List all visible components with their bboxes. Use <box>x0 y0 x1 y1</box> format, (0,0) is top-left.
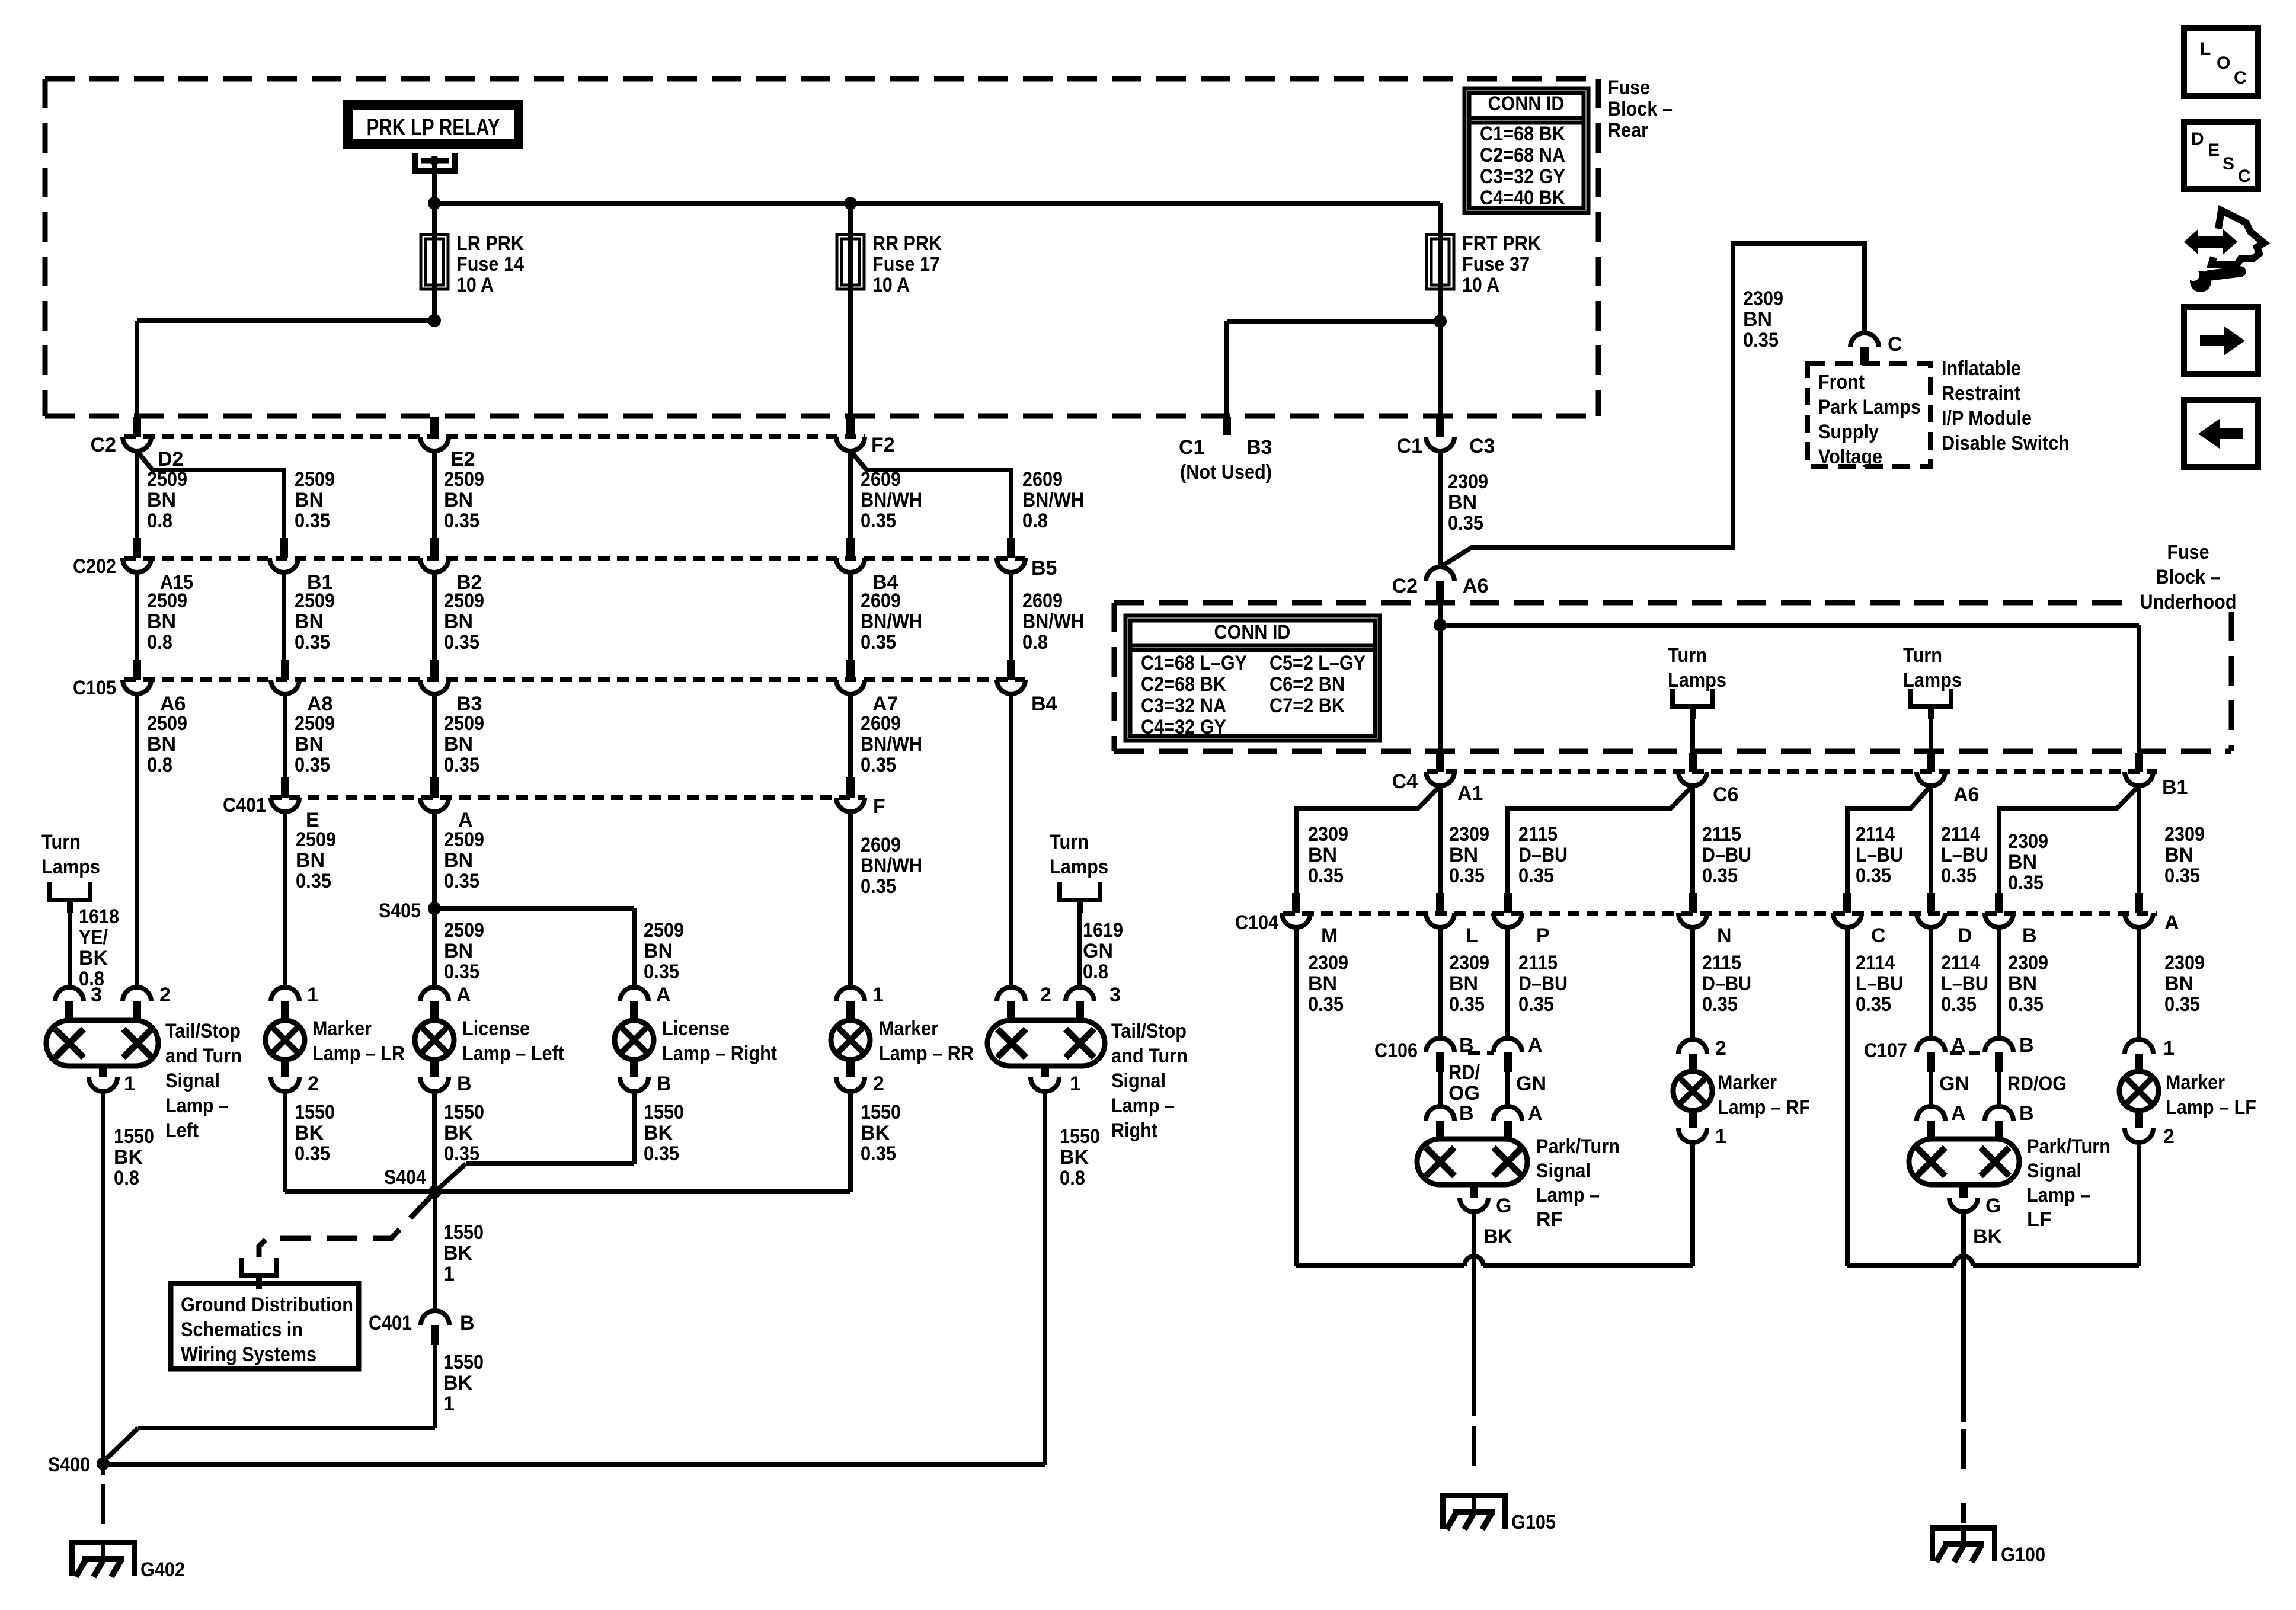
svg-text:C104: C104 <box>1235 911 1278 934</box>
svg-text:L–BU: L–BU <box>1941 972 1988 995</box>
connector C <box>1833 893 1886 947</box>
wire C down <box>1847 927 1903 1266</box>
svg-text:0.8: 0.8 <box>147 754 172 776</box>
tail/stop lamp right pin 2 <box>997 984 1051 1021</box>
row4 connector line C401 <box>270 795 865 800</box>
svg-text:2309: 2309 <box>2164 952 2205 974</box>
svg-text:0.35: 0.35 <box>644 961 679 983</box>
wire S405 to license right <box>434 908 684 987</box>
svg-text:0.35: 0.35 <box>1448 512 1483 534</box>
pin B3 not used <box>1179 417 1272 484</box>
svg-text:B1: B1 <box>2162 776 2188 799</box>
connector A underhood <box>2125 893 2179 934</box>
svg-text:C105: C105 <box>73 677 116 699</box>
svg-text:L–BU: L–BU <box>1941 844 1988 866</box>
svg-text:1550: 1550 <box>644 1101 684 1124</box>
svg-text:1: 1 <box>1070 1073 1081 1095</box>
svg-text:0.35: 0.35 <box>1856 865 1891 887</box>
svg-text:GN: GN <box>1083 940 1113 962</box>
svg-text:(Not Used): (Not Used) <box>1180 461 1272 484</box>
wire A6 below to junction <box>1438 604 1443 625</box>
wire RD/OG to lamp RF <box>1440 1061 1480 1107</box>
svg-text:C1: C1 <box>1397 435 1422 457</box>
svg-text:0.35: 0.35 <box>295 631 330 654</box>
wire RD/OG to lamp LF <box>1999 1072 2067 1107</box>
svg-text:0.35: 0.35 <box>861 754 896 776</box>
svg-text:BN: BN <box>295 489 324 511</box>
svg-text:2309: 2309 <box>1308 952 1348 974</box>
wire C401 B to S400 <box>103 1345 484 1462</box>
fuse block rear dashed enclosure <box>45 79 1598 416</box>
connector C202 pin A15 <box>73 538 193 594</box>
svg-text:Signal: Signal <box>2027 1160 2081 1182</box>
connector C106 pin A <box>1468 1034 1543 1072</box>
wire RR fuse down to F2 <box>848 289 853 417</box>
svg-text:C107: C107 <box>1864 1039 1907 1062</box>
svg-text:0.35: 0.35 <box>444 754 479 776</box>
wire marker LF down <box>2137 1142 2141 1266</box>
svg-text:Ground Distribution: Ground Distribution <box>181 1294 353 1316</box>
svg-text:Lamp – Right: Lamp – Right <box>662 1042 777 1065</box>
svg-text:B: B <box>1459 1102 1474 1125</box>
svg-text:BN: BN <box>147 610 176 633</box>
turn lamps bracket left <box>41 831 100 987</box>
svg-text:2509: 2509 <box>444 712 484 735</box>
svg-text:S404: S404 <box>384 1166 426 1189</box>
svg-text:0.35: 0.35 <box>296 870 331 892</box>
DESC icon box <box>2184 122 2258 189</box>
svg-text:BK: BK <box>79 947 108 969</box>
svg-text:G100: G100 <box>2001 1544 2045 1566</box>
park/turn lamp RF pin B <box>1426 1102 1474 1139</box>
svg-text:Supply: Supply <box>1818 421 1879 443</box>
svg-text:Rear: Rear <box>1608 119 1648 142</box>
svg-text:Fuse 17: Fuse 17 <box>872 253 940 276</box>
splice S404 <box>384 1166 442 1198</box>
marker lamp RF pin 2 <box>1678 1037 1726 1071</box>
svg-text:BK: BK <box>644 1122 673 1144</box>
wire D2 branch to B1 <box>137 451 335 538</box>
fuse LR PRK Fuse 14 <box>421 203 524 296</box>
svg-text:0.8: 0.8 <box>147 631 172 654</box>
svg-text:BN: BN <box>2164 972 2193 995</box>
connector C1/C3 <box>1397 417 1495 457</box>
wire license left to S404 <box>434 1092 484 1192</box>
svg-text:Lamp – LR: Lamp – LR <box>312 1042 405 1065</box>
svg-text:0.35: 0.35 <box>1449 993 1485 1016</box>
svg-text:2609: 2609 <box>1022 590 1063 612</box>
svg-text:Lamp –: Lamp – <box>1536 1184 1600 1206</box>
svg-text:0.35: 0.35 <box>295 754 330 776</box>
license lamp right pin B <box>620 1060 671 1095</box>
svg-text:2509: 2509 <box>295 590 335 612</box>
wire B4 to A7 <box>850 572 922 660</box>
wire A8 to E <box>285 694 335 777</box>
LOC icon box <box>2184 28 2258 96</box>
svg-text:3: 3 <box>1109 984 1121 1006</box>
svg-text:2309: 2309 <box>2008 952 2048 974</box>
svg-text:BK: BK <box>1483 1225 1513 1248</box>
svg-text:D–BU: D–BU <box>1702 844 1751 866</box>
wire A6 to front park lamps supply <box>1440 244 1865 567</box>
svg-text:C4=32 GY: C4=32 GY <box>1141 716 1226 738</box>
svg-text:BN: BN <box>147 489 176 511</box>
svg-text:1550: 1550 <box>1060 1125 1100 1148</box>
svg-text:2509: 2509 <box>444 828 484 851</box>
wire bus from relay to fuses <box>434 203 1440 235</box>
svg-text:D–BU: D–BU <box>1702 972 1751 995</box>
svg-text:1: 1 <box>443 1263 455 1285</box>
wire B1 to A8 <box>284 572 335 660</box>
svg-text:C: C <box>2234 68 2247 88</box>
wire 1619 label <box>1083 919 1123 983</box>
svg-text:D: D <box>1958 924 1972 947</box>
svg-text:License: License <box>662 1017 730 1040</box>
svg-text:RR PRK: RR PRK <box>872 232 942 255</box>
svg-text:Marker: Marker <box>2166 1071 2225 1094</box>
svg-text:1550: 1550 <box>443 1351 484 1374</box>
svg-text:1: 1 <box>872 984 884 1006</box>
svg-text:P: P <box>1536 924 1550 947</box>
svg-text:Lamp – RF: Lamp – RF <box>1718 1096 1810 1119</box>
svg-text:D2: D2 <box>158 448 183 470</box>
svg-text:C3=32 NA: C3=32 NA <box>1141 694 1226 717</box>
svg-text:2509: 2509 <box>295 468 335 491</box>
wire P to C106 A <box>1508 927 1568 1038</box>
svg-text:0.35: 0.35 <box>1518 993 1554 1016</box>
connector C106 pin B <box>1374 1034 1474 1072</box>
svg-text:BK: BK <box>1973 1225 2003 1248</box>
wire A6 branch to C <box>1847 786 1931 893</box>
wire junction to column C2 <box>137 321 434 417</box>
svg-text:B: B <box>657 1073 671 1095</box>
svg-text:2115: 2115 <box>1518 823 1558 846</box>
svg-text:2309: 2309 <box>1449 952 1489 974</box>
tail/stop lamp right pin 3 <box>1066 984 1121 1021</box>
svg-text:0.8: 0.8 <box>1083 961 1108 983</box>
svg-text:0.35: 0.35 <box>1308 865 1344 887</box>
svg-text:B3: B3 <box>1246 436 1272 459</box>
svg-text:1: 1 <box>124 1073 135 1095</box>
svg-text:C6: C6 <box>1713 783 1738 806</box>
svg-text:1: 1 <box>307 984 318 1006</box>
svg-text:L–BU: L–BU <box>1856 972 1903 995</box>
svg-text:F2: F2 <box>871 434 895 456</box>
svg-text:D: D <box>2191 129 2204 149</box>
svg-text:PRK LP RELAY: PRK LP RELAY <box>367 114 500 140</box>
wire marker LR to S404 <box>285 1092 435 1192</box>
svg-text:BN/WH: BN/WH <box>861 610 922 633</box>
svg-text:BN/WH: BN/WH <box>861 733 922 756</box>
svg-text:C202: C202 <box>73 555 116 578</box>
svg-text:Lamps: Lamps <box>1903 669 1962 692</box>
svg-text:Lamp – Left: Lamp – Left <box>462 1042 564 1065</box>
svg-text:A: A <box>1528 1034 1543 1057</box>
svg-text:0.35: 0.35 <box>2008 872 2044 894</box>
svg-text:S405: S405 <box>379 900 421 922</box>
wire FRT fuse to junction <box>1438 289 1443 321</box>
junction dot below FRT fuse <box>1434 315 1447 328</box>
svg-text:2309: 2309 <box>2008 830 2048 853</box>
license lamp right pin A <box>620 984 671 1021</box>
row connector line C104 <box>1283 911 2157 916</box>
svg-text:1550: 1550 <box>444 1101 484 1124</box>
wire B5 to B4 <box>1011 572 1084 660</box>
connector B3 <box>420 660 482 715</box>
svg-text:C2: C2 <box>91 434 116 456</box>
connector A6 underhood <box>1917 753 1979 806</box>
svg-text:A: A <box>1528 1102 1543 1125</box>
svg-text:GN: GN <box>1516 1073 1546 1095</box>
svg-text:Park/Turn: Park/Turn <box>2027 1135 2110 1158</box>
connector B underhood <box>1985 893 2037 947</box>
row3 connector line C105 <box>124 677 1025 682</box>
svg-text:C1: C1 <box>1179 436 1204 459</box>
svg-text:C3=32 GY: C3=32 GY <box>1480 165 1565 188</box>
row1 connector line <box>124 434 865 439</box>
ground G402 <box>69 1540 185 1581</box>
wire A6 down left column <box>137 694 187 987</box>
marker lamp LF pin 2 <box>2125 1110 2175 1148</box>
svg-text:2114: 2114 <box>1941 952 1980 974</box>
svg-text:A1: A1 <box>1457 782 1483 805</box>
svg-text:Lamp – LF: Lamp – LF <box>2166 1096 2256 1119</box>
svg-text:Park/Turn: Park/Turn <box>1536 1135 1620 1158</box>
svg-text:0.35: 0.35 <box>2008 993 2044 1016</box>
svg-text:E2: E2 <box>450 448 475 470</box>
junction dot at LR fuse <box>428 197 441 210</box>
svg-text:0.8: 0.8 <box>147 510 172 532</box>
svg-text:1: 1 <box>2163 1037 2175 1060</box>
svg-text:BN: BN <box>295 610 324 633</box>
splice S405 <box>379 900 441 922</box>
marker lamp LR pin 2 <box>271 1060 319 1095</box>
svg-text:BN: BN <box>1448 491 1477 514</box>
svg-text:10 A: 10 A <box>1462 274 1499 296</box>
svg-text:L–BU: L–BU <box>1856 844 1903 866</box>
svg-text:C401: C401 <box>369 1312 412 1334</box>
svg-text:RD/: RD/ <box>1448 1061 1480 1084</box>
inflatable restraint label <box>1942 357 2070 454</box>
svg-text:0.35: 0.35 <box>861 1142 896 1165</box>
wire E2 to B2 <box>434 451 484 538</box>
tail/stop and turn signal lamp right <box>987 1020 1188 1142</box>
connector L <box>1426 893 1478 947</box>
connector P <box>1494 893 1550 947</box>
svg-text:BN: BN <box>1449 972 1478 995</box>
svg-text:2309: 2309 <box>1449 823 1489 846</box>
svg-text:2: 2 <box>1040 984 1051 1006</box>
tail/stop lamp left pin 2 <box>123 984 171 1021</box>
marker lamp RR pin 1 <box>836 984 884 1021</box>
svg-text:0.35: 0.35 <box>861 875 896 898</box>
svg-text:2114: 2114 <box>1856 823 1895 846</box>
svg-text:Park Lamps: Park Lamps <box>1818 396 1921 418</box>
CONN ID table (underhood) <box>1125 616 1380 741</box>
svg-text:BN: BN <box>1308 972 1337 995</box>
marker lamp LF <box>2119 1071 2256 1119</box>
svg-text:L: L <box>1466 924 1478 947</box>
svg-text:A: A <box>2164 911 2179 934</box>
junction dot at RR fuse <box>844 197 857 235</box>
svg-text:License: License <box>462 1017 530 1040</box>
svg-text:2509: 2509 <box>444 468 484 491</box>
svg-text:and Turn: and Turn <box>1111 1045 1188 1067</box>
connector B4 <box>836 538 898 594</box>
fuse block underhood label <box>2140 541 2237 613</box>
svg-text:Fuse: Fuse <box>1608 76 1650 99</box>
svg-text:Turn: Turn <box>41 831 81 853</box>
license lamp right <box>615 1017 777 1065</box>
svg-text:1550: 1550 <box>295 1101 335 1124</box>
ground distribution bracket <box>239 1258 279 1289</box>
svg-text:M: M <box>1321 924 1338 947</box>
connector F <box>836 777 885 818</box>
svg-text:FRT PRK: FRT PRK <box>1462 232 1541 255</box>
tail lamp left pin 1 <box>89 1066 135 1095</box>
svg-text:BN: BN <box>444 489 473 511</box>
svg-text:Voltage: Voltage <box>1818 446 1882 468</box>
svg-text:Turn: Turn <box>1903 644 1942 667</box>
svg-text:Tail/Stop: Tail/Stop <box>165 1020 241 1042</box>
park/turn signal lamp RF <box>1417 1135 1620 1231</box>
ground G100 <box>1930 1525 2045 1566</box>
svg-text:0.35: 0.35 <box>1856 993 1891 1016</box>
wire GN to lamp RF <box>1508 1072 1546 1107</box>
park/turn lamp RF pin A <box>1494 1102 1543 1139</box>
svg-text:BN: BN <box>295 733 324 756</box>
svg-text:BK: BK <box>295 1122 324 1144</box>
svg-text:1550: 1550 <box>861 1101 901 1124</box>
wire 1618 label <box>79 905 119 990</box>
svg-text:2: 2 <box>1715 1037 1726 1060</box>
connector C6 <box>1678 753 1738 806</box>
svg-text:BN: BN <box>2164 844 2193 866</box>
svg-text:0.35: 0.35 <box>444 870 479 892</box>
fuse block underhood dashed enclosure <box>1114 603 2231 751</box>
park/turn lamp RF pin G <box>1460 1185 1513 1248</box>
svg-text:Lamp –: Lamp – <box>1111 1094 1175 1117</box>
svg-text:Schematics in: Schematics in <box>181 1318 303 1341</box>
svg-text:2: 2 <box>308 1073 319 1095</box>
park/turn lamp LF pin G <box>1949 1185 2003 1248</box>
svg-text:C4: C4 <box>1392 770 1418 793</box>
svg-text:2309: 2309 <box>2164 823 2205 846</box>
svg-text:2115: 2115 <box>1702 823 1741 846</box>
ground rail RF <box>1296 1256 1693 1266</box>
svg-text:Left: Left <box>165 1119 199 1142</box>
svg-text:Lamps: Lamps <box>1050 856 1108 878</box>
wire A to marker LF <box>2139 927 2205 1039</box>
ground distribution pointer <box>259 1196 431 1257</box>
svg-text:Block –: Block – <box>1608 98 1673 120</box>
connector B1 <box>270 538 332 594</box>
svg-text:YE/: YE/ <box>79 926 108 949</box>
svg-text:10 A: 10 A <box>456 274 494 296</box>
wire A15 to A6 <box>137 572 187 660</box>
svg-text:O: O <box>2217 53 2230 73</box>
svg-text:Inflatable: Inflatable <box>1942 357 2021 380</box>
svg-text:C2: C2 <box>1392 575 1418 597</box>
wire S404 to C401 B <box>435 1192 484 1311</box>
svg-text:B4: B4 <box>1031 693 1057 715</box>
wire B to C107 B <box>1999 927 2048 1038</box>
svg-text:Lamp –: Lamp – <box>165 1094 229 1117</box>
park/turn lamp LF pin A <box>1917 1102 1966 1139</box>
svg-text:G105: G105 <box>1511 1511 1556 1534</box>
svg-text:0.35: 0.35 <box>1941 993 1977 1016</box>
svg-text:2509: 2509 <box>147 590 187 612</box>
connector B4 row3 <box>997 660 1057 715</box>
wire FRT junction down to C1/C3 <box>1438 321 1443 417</box>
connector C401 pin E <box>223 777 319 831</box>
svg-text:BN: BN <box>444 610 473 633</box>
svg-text:G: G <box>1985 1195 2001 1217</box>
svg-text:Right: Right <box>1111 1119 1157 1142</box>
svg-text:BN: BN <box>147 733 176 756</box>
svg-text:0.35: 0.35 <box>1518 865 1554 887</box>
wire marker RF down <box>1690 1142 1695 1266</box>
svg-text:2609: 2609 <box>861 590 901 612</box>
connector A7 <box>836 660 898 715</box>
wire C2 to A15 <box>137 451 187 538</box>
connector N <box>1678 893 1732 947</box>
connector C107 pin A <box>1864 1034 1980 1072</box>
connector A8 <box>271 660 332 715</box>
svg-text:0.35: 0.35 <box>1941 865 1977 887</box>
connector B5 <box>997 538 1057 580</box>
diagnostic icon <box>2186 210 2264 292</box>
svg-text:BN: BN <box>444 940 473 962</box>
wire lamp RF G to ground <box>1472 1212 1476 1466</box>
svg-text:Front: Front <box>1818 371 1865 393</box>
connector C2/A6 <box>1392 567 1489 604</box>
wire A1 to L <box>1440 786 1489 893</box>
connector C2 pin D2 <box>91 417 184 470</box>
junction dot A6 branch <box>1434 619 1447 632</box>
marker lamp LF pin 1 <box>2125 1037 2175 1071</box>
svg-text:C401: C401 <box>223 794 266 817</box>
svg-text:B: B <box>457 1073 472 1095</box>
wire N to marker RF <box>1693 927 1751 1039</box>
svg-text:2114: 2114 <box>1856 952 1895 974</box>
svg-text:C5=2 L–GY: C5=2 L–GY <box>1269 652 1366 674</box>
svg-text:BN: BN <box>444 849 473 872</box>
connector C107 pin B <box>1985 1034 2034 1072</box>
svg-text:0.8: 0.8 <box>1022 631 1048 654</box>
wire B3 to A <box>434 694 484 777</box>
connector B1 underhood <box>2125 753 2188 799</box>
splice S400 <box>48 1454 110 1476</box>
svg-text:LR PRK: LR PRK <box>456 232 524 255</box>
svg-text:B5: B5 <box>1031 557 1057 580</box>
svg-text:0.35: 0.35 <box>1702 993 1738 1016</box>
ground G402 lead <box>101 1470 105 1524</box>
svg-text:C4=40 BK: C4=40 BK <box>1480 187 1565 209</box>
svg-text:BN/WH: BN/WH <box>1022 489 1084 511</box>
wire C6 branch to P <box>1508 786 1693 893</box>
svg-text:2115: 2115 <box>1702 952 1741 974</box>
svg-text:2309: 2309 <box>1448 470 1488 493</box>
wire B1 to A <box>2139 786 2205 893</box>
svg-text:Lamps: Lamps <box>41 856 100 878</box>
relay PRK LP RELAY box <box>348 105 519 144</box>
park/turn signal lamp LF <box>1909 1135 2110 1231</box>
svg-text:Fuse 14: Fuse 14 <box>456 253 524 276</box>
connector C front park lamps <box>1850 333 1902 365</box>
svg-text:S: S <box>2223 154 2234 174</box>
svg-text:1: 1 <box>443 1393 455 1415</box>
